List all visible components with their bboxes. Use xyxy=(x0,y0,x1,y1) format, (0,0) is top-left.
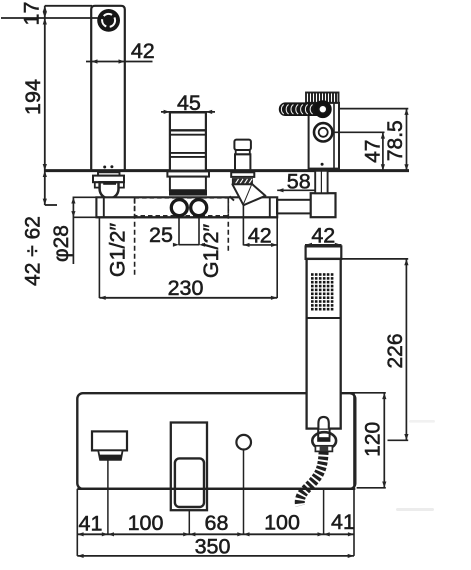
dim 78.5 vertical xyxy=(406,109,408,171)
svg-text:φ28: φ28 xyxy=(50,225,73,262)
svg-text:17: 17 xyxy=(20,2,44,26)
right nipple tube xyxy=(277,200,311,214)
diverter band xyxy=(236,150,250,154)
faint scan smudge xyxy=(396,508,434,511)
handle lever inner xyxy=(175,458,204,507)
spout escutcheon flange xyxy=(93,176,124,183)
handle center line xyxy=(188,510,190,534)
body bar xyxy=(96,197,277,217)
arrow at y5.8 xyxy=(43,6,47,12)
spout side view body xyxy=(91,6,125,171)
dim 47 vertical xyxy=(382,132,384,170)
shower face bottom line xyxy=(307,317,341,319)
bar bottom redraw over dome xyxy=(96,216,277,218)
spout front body xyxy=(92,431,127,450)
bar top edge extension to phi28 xyxy=(73,196,96,198)
dim 120 ext top xyxy=(342,392,386,394)
svg-text:41: 41 xyxy=(331,510,355,534)
G1/2 leader left dashed xyxy=(134,198,136,277)
svg-text:68: 68 xyxy=(205,511,229,535)
cartridge flange xyxy=(167,171,209,176)
wire: extension line y=18 from left margin to circle xyxy=(1,17,98,19)
wall line xyxy=(45,169,409,172)
diverter cone xyxy=(232,184,252,205)
aerator dark band xyxy=(99,455,121,460)
holder plate xyxy=(309,103,339,169)
cone base hatch xyxy=(230,196,235,200)
body bar left cap xyxy=(103,197,105,217)
plate bottom line over handle xyxy=(77,488,355,490)
cartridge band line 2 xyxy=(170,134,206,136)
cartridge column xyxy=(170,112,206,170)
dim 42 right extensions xyxy=(242,206,244,246)
cartridge band line 4 xyxy=(170,156,206,158)
inlet circle left xyxy=(171,200,187,216)
small dot on holder xyxy=(321,163,324,166)
spray face grid xyxy=(311,273,333,310)
svg-text:G1/2″: G1/2″ xyxy=(106,223,130,278)
holder stem xyxy=(315,171,327,193)
body bar right cap xyxy=(269,197,271,217)
diverter cone wedge xyxy=(244,184,266,205)
cartridge band line 1 xyxy=(170,129,206,131)
front view plate xyxy=(77,393,355,489)
spout dots xyxy=(103,166,106,169)
phi28 extension xyxy=(72,197,74,265)
svg-text:350: 350 xyxy=(195,535,231,559)
dim 226 vertical xyxy=(405,259,407,440)
bottom dim extensions xyxy=(76,489,78,556)
diverter flange xyxy=(231,172,254,177)
svg-text:41: 41 xyxy=(79,512,103,536)
dim 226 ext bottom xyxy=(388,439,409,441)
knurled holder pin xyxy=(279,102,330,116)
svg-text:100: 100 xyxy=(128,511,164,535)
dim 120 ext bottom xyxy=(357,487,386,489)
dim 25 extensions xyxy=(178,217,180,245)
cartridge band line 3 xyxy=(170,152,206,154)
bar bottom edge extension to phi28 xyxy=(73,216,96,218)
nozzle dome xyxy=(318,417,328,429)
svg-text:42 ÷ 62: 42 ÷ 62 xyxy=(22,216,45,286)
hose coil xyxy=(300,452,324,506)
bottom dim row line xyxy=(77,533,354,535)
hose coupling xyxy=(315,446,332,452)
tick at y205 xyxy=(45,204,57,206)
svg-text:230: 230 xyxy=(168,276,204,300)
svg-text:42: 42 xyxy=(248,223,272,247)
wall elbow block xyxy=(311,193,336,217)
dim 120 vertical xyxy=(383,393,385,488)
union nut circle xyxy=(314,123,332,141)
svg-text:42: 42 xyxy=(131,39,155,63)
wire: extension line top of spout y=5.5 xyxy=(45,5,92,7)
svg-text:G1/2″: G1/2″ xyxy=(199,224,223,279)
svg-text:78.5: 78.5 xyxy=(384,120,407,161)
spout elbow right tab xyxy=(118,182,124,187)
pin pivot ring xyxy=(316,102,330,116)
svg-text:42: 42 xyxy=(311,224,335,248)
handshower body xyxy=(307,259,341,429)
spout escutcheon cap xyxy=(98,172,120,175)
diverter knob xyxy=(234,140,251,150)
dim line 17/194/42÷62 vertical at x=44.8 xyxy=(44,6,46,205)
svg-text:47: 47 xyxy=(362,140,385,163)
knob front circle xyxy=(236,435,251,450)
hose tube xyxy=(317,429,319,438)
handshower cap xyxy=(306,246,342,259)
ext line y=108.6 for 78.5 xyxy=(339,108,408,110)
svg-text:120: 120 xyxy=(362,422,385,457)
knurled wheel xyxy=(306,93,339,103)
diverter thread band hatched xyxy=(233,179,253,184)
dim 226 ext top xyxy=(341,258,408,260)
spout outlet circle xyxy=(97,9,120,32)
knob center line xyxy=(243,450,245,535)
svg-text:226: 226 xyxy=(384,333,407,368)
hidden valve body dashed xyxy=(135,198,229,216)
hose nut dark xyxy=(317,437,330,442)
cartridge dark nut xyxy=(169,190,207,196)
handle outer xyxy=(171,423,207,511)
arrow at wall y170.6 xyxy=(43,164,47,171)
cartridge lower column xyxy=(170,177,206,191)
inlet circle right xyxy=(191,200,207,216)
diverter stem xyxy=(235,154,250,170)
spout elbow left tab xyxy=(95,182,101,187)
dim 350 line xyxy=(77,555,354,557)
G1/2 leader right dashed xyxy=(227,198,229,251)
svg-text:194: 194 xyxy=(21,79,45,115)
holder plate inner edge line xyxy=(333,103,335,168)
arrow at y205 xyxy=(43,199,47,205)
spout elbow dome xyxy=(100,182,119,198)
dim 230 xyxy=(98,217,100,298)
arrow at y18 down xyxy=(43,18,47,25)
row arrows xyxy=(77,532,354,536)
svg-text:100: 100 xyxy=(264,511,300,535)
spout center line xyxy=(107,460,109,534)
ext line y=132.3 for 47 xyxy=(333,131,385,133)
arrow at y18 up xyxy=(43,12,47,18)
arrow down at wall xyxy=(43,171,47,177)
svg-text:25: 25 xyxy=(149,223,173,247)
spout front aerator xyxy=(98,450,122,459)
hanger swivel ellipse xyxy=(312,432,336,449)
